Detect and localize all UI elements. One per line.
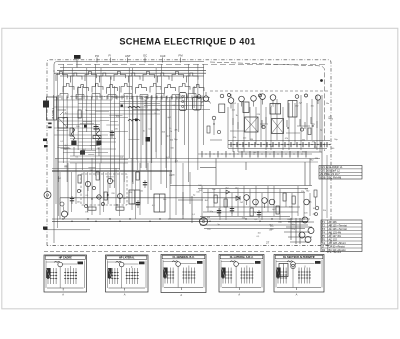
resistor R10 — [88, 207, 96, 210]
capacitor C4 — [71, 196, 73, 204]
switch bank loop wires — [54, 65, 328, 77]
svg-text:15k: 15k — [323, 210, 326, 212]
capacitor C6 — [137, 200, 139, 208]
svg-text:A: A — [296, 293, 298, 297]
transistor T15 — [269, 199, 275, 205]
switch contact staircase rows — [56, 72, 204, 100]
svg-text:A: A — [62, 293, 64, 297]
svg-text:47k: 47k — [312, 142, 315, 144]
band switch stems — [97, 58, 181, 63]
svg-text:10n: 10n — [140, 191, 143, 193]
lower left extra wires — [59, 172, 136, 219]
transistor T3 — [239, 96, 245, 102]
transistor T11 — [118, 194, 123, 199]
transistor T7 — [315, 95, 320, 100]
detector diode D1 — [236, 196, 240, 200]
diode D2 — [226, 190, 230, 194]
output transistor T18 — [302, 217, 308, 223]
lower left bus wires — [44, 219, 310, 230]
svg-text:15k: 15k — [155, 109, 158, 111]
transistor T1 — [203, 96, 208, 101]
resistor R3 — [78, 110, 81, 118]
transistor T11b — [97, 195, 101, 199]
audio bus wires — [198, 186, 312, 217]
IF can TR4 — [270, 104, 281, 115]
resistor R7 — [104, 192, 107, 200]
svg-text:15k: 15k — [233, 137, 236, 139]
detector row symbols — [197, 94, 307, 99]
small part circles — [77, 189, 80, 192]
resistor R9 — [116, 207, 124, 210]
mid bus component ticks — [198, 151, 312, 158]
oscillator can TR1 — [179, 93, 187, 111]
capacitor C8 — [231, 206, 233, 214]
resistor R2 — [70, 128, 73, 136]
option box 1 HP CADRE — [44, 255, 87, 292]
thermistor cluster — [315, 206, 319, 210]
schematic boundary frame — [47, 60, 331, 246]
transistor T10 — [107, 178, 112, 183]
antenna terminal — [74, 55, 81, 59]
svg-text:A: A — [180, 293, 182, 297]
svg-text:27: 27 — [266, 241, 270, 245]
coil L3 — [72, 128, 75, 140]
svg-text:47k: 47k — [116, 116, 119, 118]
svg-text:CL.GENERAL B.U.: CL.GENERAL B.U. — [173, 256, 195, 259]
IF can TR7 — [272, 119, 284, 134]
frame lug — [44, 145, 48, 147]
svg-text:15k: 15k — [311, 105, 314, 107]
resistor R13 — [283, 193, 286, 201]
output transistor T20 — [299, 232, 305, 238]
switch bank drop wires — [54, 64, 204, 188]
transistor T13 — [253, 199, 259, 205]
sub-chassis dashed box — [81, 174, 127, 205]
audio drop wires — [202, 186, 310, 220]
svg-text:1k: 1k — [113, 181, 115, 183]
switch comb stubs — [57, 96, 202, 100]
ladder wires right half — [200, 159, 310, 186]
interstage transformer TR9 — [129, 190, 140, 204]
oscillator can TR2 — [193, 97, 202, 110]
svg-text:1k: 1k — [236, 115, 238, 117]
left terminal lugs — [48, 123, 51, 129]
transistor T14 — [262, 198, 268, 204]
IF can TR3 — [243, 102, 249, 113]
svg-text:15k: 15k — [169, 175, 172, 177]
transistor T4 — [251, 96, 257, 102]
transistor T9 — [85, 181, 90, 186]
option box 5 DL SECTEUR ALTERNATIF — [274, 255, 324, 293]
output transistor T19 — [308, 228, 314, 234]
svg-text:10n: 10n — [258, 232, 261, 234]
svg-text:10n: 10n — [163, 199, 166, 201]
resistor R6 — [96, 172, 99, 180]
capacitor C2 — [111, 130, 113, 138]
interconnect wires — [168, 186, 206, 224]
tuning gang CV1 — [58, 118, 68, 129]
svg-text:10n: 10n — [212, 189, 215, 191]
band labels — [95, 54, 183, 58]
AGC dashed wire — [210, 90, 329, 92]
bus junction dots — [62, 218, 272, 222]
IF block filler wires — [230, 117, 317, 133]
IF strip bus wires — [228, 141, 330, 153]
capacitor C7 — [218, 208, 220, 216]
resistor R16 — [276, 206, 279, 214]
transistor T12 — [244, 195, 250, 201]
svg-text:15k: 15k — [269, 230, 272, 232]
svg-text:B.SON 1: B.SON 1 — [51, 107, 55, 118]
svg-text:15k: 15k — [308, 202, 311, 204]
svg-text:15k: 15k — [85, 211, 88, 213]
component value labels — [58, 98, 339, 238]
svg-text:ANT: ANT — [125, 54, 131, 58]
resistor R15 — [250, 208, 253, 216]
lower left drop wires — [56, 158, 190, 219]
center long drop wires — [133, 96, 176, 190]
svg-text:1k: 1k — [169, 128, 171, 130]
svg-text:CAF: CAF — [160, 54, 166, 58]
IF can TR6 — [245, 117, 259, 132]
bottom dashed rule — [44, 250, 335, 252]
IF can TR5 — [288, 101, 297, 118]
resistor R5 — [78, 175, 81, 183]
svg-text:DL SECTEUR ALTERNATIF: DL SECTEUR ALTERNATIF — [283, 256, 315, 259]
svg-text:47k: 47k — [174, 129, 177, 131]
svg-text:FM: FM — [179, 54, 184, 58]
left maze connector wires — [54, 97, 210, 177]
left inner rail wires — [53, 70, 55, 243]
option box 3 CL.GENERAL B.U. — [161, 255, 206, 293]
resistor R14 — [292, 196, 295, 204]
svg-text:OC: OC — [143, 54, 147, 58]
svg-text:10n: 10n — [276, 103, 279, 105]
coil L4 — [97, 128, 100, 140]
coil L2 — [128, 119, 140, 121]
driver transformer TR8 — [154, 194, 165, 212]
option box 4 CL.LATERAL A.B.U. — [219, 255, 264, 293]
frame socket — [44, 192, 51, 199]
capacitor C1 — [95, 124, 97, 132]
parts table upper — [319, 166, 362, 180]
coil L1 — [128, 106, 140, 108]
svg-text:HP LATERAL: HP LATERAL — [119, 257, 135, 260]
volume control T8 — [62, 211, 68, 217]
svg-text:15k: 15k — [129, 192, 132, 194]
transistor T2 — [228, 98, 234, 104]
svg-text:47k: 47k — [302, 151, 305, 153]
component body blobs — [84, 105, 150, 142]
transistor T16 — [304, 199, 310, 205]
svg-text:HP CADRE: HP CADRE — [59, 257, 72, 260]
svg-text:47k: 47k — [285, 138, 288, 140]
transistor table — [321, 220, 362, 252]
coil core wire — [73, 147, 75, 156]
capacitor C9 — [258, 210, 260, 218]
IF block filler parts — [262, 125, 265, 128]
IF strip drop wires — [228, 95, 320, 152]
main earth bus — [52, 170, 172, 172]
audio box boundary — [60, 197, 240, 199]
svg-text:SCHEMA ELECTRIQUE D 401: SCHEMA ELECTRIQUE D 401 — [119, 36, 255, 46]
transistor T6 — [270, 95, 276, 101]
resistor R4 — [219, 104, 225, 113]
output transistor T21 — [305, 237, 311, 243]
svg-text:A: A — [238, 293, 240, 297]
capacitor C5 — [144, 180, 146, 188]
mixer parts cluster — [207, 116, 222, 140]
resistor R1 — [93, 136, 101, 139]
left terminal strip — [47, 97, 57, 120]
bus resistor ticks — [231, 142, 331, 147]
svg-text:1k: 1k — [170, 131, 172, 133]
supply rail wire — [321, 95, 323, 243]
resistor R8 — [136, 172, 139, 180]
output transistor T17 — [200, 218, 208, 226]
chassis lug — [43, 227, 48, 230]
svg-text:1k: 1k — [143, 131, 145, 133]
transistor T5 — [260, 94, 266, 100]
svg-text:10n: 10n — [326, 103, 329, 105]
center bus wires — [55, 158, 320, 160]
svg-text:1k: 1k — [85, 110, 87, 112]
supply rail wire 2 — [326, 155, 328, 218]
svg-text:A: A — [124, 293, 126, 297]
inner chassis frame — [54, 62, 204, 73]
svg-text:10n: 10n — [77, 202, 80, 204]
svg-text:BOB. OSC FM-AM: BOB. OSC FM-AM — [320, 176, 341, 179]
svg-text:1k: 1k — [154, 113, 156, 115]
chassis lug 2 — [43, 139, 47, 142]
resistor R12 — [224, 199, 227, 207]
svg-text:CL.LATERAL A.B.U.: CL.LATERAL A.B.U. — [230, 256, 254, 259]
output cluster wires — [284, 218, 314, 244]
resistor R11 — [214, 195, 217, 203]
svg-text:15k: 15k — [301, 191, 304, 193]
svg-text:FI: FI — [109, 54, 112, 58]
svg-text:P.L. 12.64: P.L. 12.64 — [327, 250, 341, 254]
option box 2 HP LATERAL — [106, 255, 149, 292]
